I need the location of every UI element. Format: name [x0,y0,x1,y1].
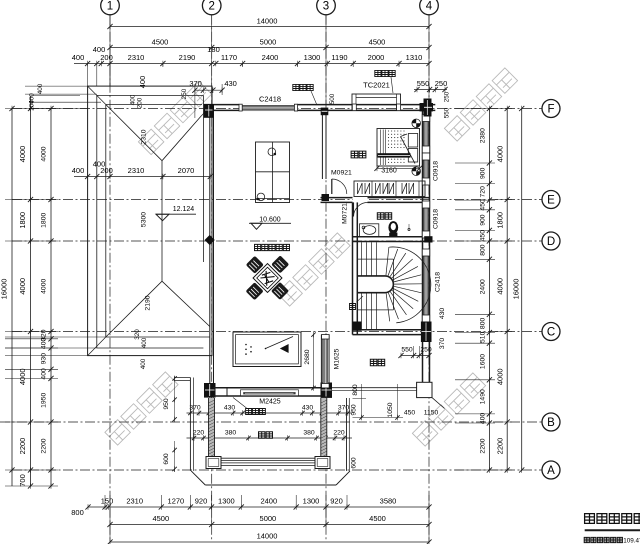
svg-text:M1625: M1625 [334,348,341,369]
svg-text:3: 3 [323,1,329,13]
svg-text:1150: 1150 [424,410,439,417]
svg-text:510: 510 [480,331,487,343]
svg-text:450: 450 [480,230,487,242]
svg-text:14000: 14000 [257,17,278,26]
svg-text:950: 950 [163,398,170,410]
svg-text:4500: 4500 [152,38,169,47]
svg-text:400: 400 [37,83,44,94]
svg-text:930: 930 [41,353,48,365]
svg-text:M0921: M0921 [331,170,352,177]
svg-text:4000: 4000 [496,146,505,163]
svg-text:14000: 14000 [257,532,278,541]
svg-text:600: 600 [163,453,170,465]
svg-text:380: 380 [303,430,315,437]
svg-text:F: F [547,103,554,115]
svg-text:550: 550 [417,79,430,88]
svg-text:400: 400 [72,166,85,175]
svg-text:700: 700 [18,474,27,487]
svg-text:550: 550 [444,107,451,118]
svg-text:430: 430 [224,79,237,88]
svg-text:800: 800 [480,318,487,330]
svg-text:920: 920 [195,497,208,506]
svg-text:2310: 2310 [126,497,143,506]
svg-text:900: 900 [480,214,487,226]
svg-text:1800: 1800 [18,212,27,229]
svg-text:900: 900 [480,167,487,179]
svg-text:C2418: C2418 [259,95,281,104]
svg-text:4000: 4000 [18,368,27,385]
svg-text:370: 370 [189,405,201,412]
svg-text:220: 220 [333,430,345,437]
svg-text:12.124: 12.124 [173,206,195,213]
svg-text:1300: 1300 [303,497,320,506]
svg-text:C: C [547,326,555,338]
svg-text:1950: 1950 [41,393,48,408]
svg-text:430: 430 [439,308,446,320]
svg-text:400: 400 [480,413,487,425]
svg-text:200: 200 [137,97,144,108]
svg-text:5300: 5300 [141,212,148,227]
svg-text:430: 430 [302,405,314,412]
svg-text:16000: 16000 [0,279,9,300]
svg-text:5000: 5000 [260,38,277,47]
svg-text:C2418: C2418 [435,272,442,292]
svg-text:600: 600 [351,457,358,469]
svg-text:2190: 2190 [179,53,196,62]
svg-text:E: E [547,194,555,206]
svg-text:920: 920 [330,497,343,506]
svg-text:370: 370 [189,79,202,88]
svg-text:1800: 1800 [496,212,505,229]
svg-text:800: 800 [71,508,84,517]
svg-text:2380: 2380 [480,128,487,143]
svg-text:380: 380 [225,430,237,437]
svg-text:4500: 4500 [369,514,386,523]
svg-text:2310: 2310 [128,53,145,62]
svg-text:4000: 4000 [496,278,505,295]
svg-text:M2425: M2425 [259,399,281,406]
svg-text:16000: 16000 [512,279,521,300]
svg-text:250: 250 [435,79,448,88]
svg-text:2200: 2200 [41,438,48,453]
svg-text:400: 400 [140,358,147,369]
svg-text:720: 720 [480,186,487,198]
svg-text:2070: 2070 [178,166,195,175]
svg-text:1490: 1490 [480,389,487,404]
svg-text:4000: 4000 [18,146,27,163]
svg-text:1300: 1300 [218,497,235,506]
svg-text:250: 250 [181,88,188,99]
svg-text:5000: 5000 [260,514,277,523]
svg-text:10.600: 10.600 [259,217,281,224]
svg-text:D: D [547,236,555,248]
svg-text:450: 450 [404,410,416,417]
svg-text:4500: 4500 [369,38,386,47]
svg-text:C0918: C0918 [433,161,440,181]
svg-text:4000: 4000 [41,146,48,161]
svg-text:1600: 1600 [480,354,487,369]
svg-text:1270: 1270 [168,497,185,506]
svg-text:2190: 2190 [145,295,152,310]
svg-text:3580: 3580 [380,497,397,506]
svg-text:400: 400 [72,53,85,62]
svg-text:400: 400 [141,337,148,348]
svg-text:2000: 2000 [368,53,385,62]
svg-text:C0918: C0918 [433,209,440,229]
svg-text:180: 180 [207,45,220,54]
svg-text:1: 1 [107,1,113,13]
svg-text:2200: 2200 [496,438,505,455]
svg-text:200: 200 [100,53,113,62]
svg-text:4: 4 [426,1,433,13]
svg-text:4500: 4500 [152,514,169,523]
svg-text:450: 450 [480,199,487,211]
svg-text:2310: 2310 [128,166,145,175]
svg-text:TC2021: TC2021 [363,81,390,90]
svg-text:1170: 1170 [221,53,237,62]
svg-text:250: 250 [420,347,432,354]
svg-text:4000: 4000 [18,278,27,295]
svg-text:2400: 2400 [480,279,487,294]
svg-text:B: B [547,417,555,429]
svg-text:2200: 2200 [480,438,487,453]
svg-text:1300: 1300 [304,53,321,62]
svg-text:1800: 1800 [41,213,48,228]
svg-text:250: 250 [444,91,451,102]
svg-text:1050: 1050 [387,402,394,417]
svg-text:200: 200 [100,166,113,175]
svg-text::109.47: :109.47 [622,538,640,545]
svg-text:4000: 4000 [496,368,505,385]
svg-text:4000: 4000 [41,279,48,294]
svg-text:A: A [547,465,555,477]
svg-text:400: 400 [130,94,137,105]
svg-text:400: 400 [41,338,48,350]
svg-text:2680: 2680 [304,349,311,364]
svg-text:2200: 2200 [18,438,27,455]
svg-text:370: 370 [338,405,350,412]
svg-text:2: 2 [208,1,214,13]
svg-text:800: 800 [352,384,359,396]
svg-text:220: 220 [193,430,205,437]
svg-text:500: 500 [329,93,336,104]
svg-text:2400: 2400 [260,497,277,506]
svg-text:370: 370 [439,338,446,350]
svg-text:800: 800 [480,244,487,256]
svg-text:400: 400 [41,368,48,380]
svg-text:150: 150 [101,497,114,506]
svg-text:430: 430 [224,405,236,412]
svg-text:M0721: M0721 [342,203,349,224]
svg-text:2400: 2400 [262,53,279,62]
svg-text:1190: 1190 [331,53,347,62]
svg-text:550: 550 [401,347,413,354]
svg-text:1310: 1310 [406,53,423,62]
svg-text:320: 320 [134,329,141,340]
svg-text:2310: 2310 [141,129,148,144]
svg-text:200: 200 [29,100,36,111]
svg-text:950: 950 [351,404,358,416]
